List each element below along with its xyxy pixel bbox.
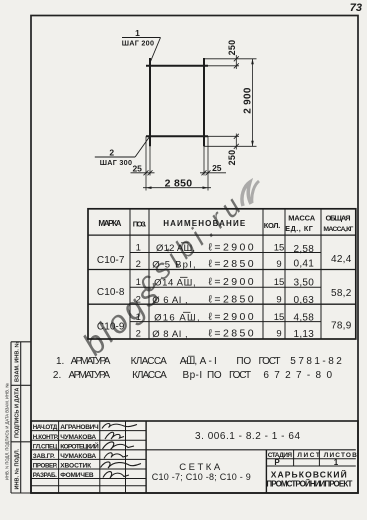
svg-text:ПРОВЕР.: ПРОВЕР. [33,463,58,470]
svg-text:АРМАТУРА: АРМАТУРА [71,356,111,367]
svg-text:250: 250 [227,40,237,56]
columns [58,421,60,493]
dimension 25 right [200,170,226,175]
svg-text:ℓ=2850: ℓ=2850 [209,294,254,306]
svg-text:А-I: А-I [200,356,217,367]
svg-text:МАССА: МАССА [288,214,316,223]
svg-text:Р: Р [274,458,280,467]
svg-text:ЧУМАКОВА: ЧУМАКОВА [60,453,96,460]
svg-text:ПОДПИСЬ И ДАТА: ПОДПИСЬ И ДАТА [14,388,20,438]
svg-text:ПРОМСТРОЙНИИПРОЕКТ: ПРОМСТРОЙНИИПРОЕКТ [266,479,352,488]
dimension 250 top [234,55,239,69]
svg-text:73: 73 [350,2,362,14]
svg-text:НАИМЕНОВАНИЕ: НАИМЕНОВАНИЕ [163,219,246,228]
svg-text:Ø12 AШ,: Ø12 AШ, [156,243,195,254]
svg-text:ЗАВ.ГР.: ЗАВ.ГР. [33,453,55,460]
signatures [101,424,142,479]
svg-text:МАССА,КГ: МАССА,КГ [323,226,353,233]
extension lines [146,59,257,191]
svg-text:ОБЩАЯ: ОБЩАЯ [326,214,351,223]
dimension 250 bottom [234,134,239,150]
mesh top bar (pos.2) [146,65,208,67]
mesh right bar (pos.1) [203,58,205,146]
svg-text:25: 25 [212,163,222,173]
svg-text:3. 006.1 - 8.2 - 1 - 64: 3. 006.1 - 8.2 - 1 - 64 [195,431,300,442]
row lines (partial, merged marks) [130,252,321,254]
note line 2 [53,370,333,381]
svg-text:С10-7: С10-7 [97,255,125,266]
table column lines [129,209,131,339]
svg-text:0,41: 0,41 [293,258,314,269]
svg-text:9: 9 [276,259,281,270]
svg-text:2: 2 [136,329,141,340]
svg-text:2 850: 2 850 [165,177,193,189]
svg-text:1: 1 [136,312,141,323]
svg-text:Н.КОНТР.: Н.КОНТР. [33,434,59,441]
svg-text:ЕД., КГ: ЕД., КГ [285,224,313,233]
svg-text:2,58: 2,58 [293,244,314,255]
svg-text:КЛАССА: КЛАССА [132,370,167,381]
mesh bottom bar (pos.2) [146,135,208,137]
svg-text:1: 1 [135,28,140,38]
svg-text:ℓ=2900: ℓ=2900 [209,276,254,288]
svg-text:2 900: 2 900 [243,87,254,114]
svg-text:С10-9: С10-9 [97,322,125,333]
svg-text:А-Ш ,: А-Ш , [180,356,198,367]
svg-text:КЛАССА: КЛАССА [131,356,168,367]
svg-text:15: 15 [274,277,285,288]
svg-text:ШАГ 300: ШАГ 300 [100,158,133,167]
svg-text:НАЧ.ОТД: НАЧ.ОТД [33,424,58,431]
svg-text:3,50: 3,50 [293,277,314,288]
svg-text:0,63: 0,63 [293,295,314,306]
svg-text:РАЗРАБ.: РАЗРАБ. [33,472,57,479]
svg-text:6727-80: 6727-80 [263,370,332,381]
svg-text:Ø16 AШ,: Ø16 AШ, [154,313,200,324]
svg-text:1: 1 [334,458,339,467]
svg-text:Ø 6 AI ,: Ø 6 AI , [152,295,188,306]
dimension 2900 [252,59,254,147]
svg-text:Вр-I: Вр-I [183,370,203,381]
svg-text:ℓ=2900: ℓ=2900 [209,242,254,254]
svg-text:78,9: 78,9 [331,321,352,332]
svg-text:АРМАТУРА: АРМАТУРА [69,370,111,381]
svg-text:СТАДИЯ: СТАДИЯ [268,452,293,459]
svg-text:ЛИСТ: ЛИСТ [297,452,320,459]
svg-text:ПОЗ.: ПОЗ. [133,220,147,229]
svg-text:ЛИСТОВ: ЛИСТОВ [324,452,357,459]
svg-text:ГЛ.СПЕЦ: ГЛ.СПЕЦ [33,443,58,450]
svg-text:9: 9 [276,329,281,340]
svg-text:250: 250 [227,150,237,166]
svg-text:1,13: 1,13 [293,329,314,340]
right rows [266,458,355,460]
svg-text:С10 -7; С10 -8; С10 - 9: С10 -7; С10 -8; С10 - 9 [152,472,251,482]
mesh left bar (pos.1) [149,58,151,146]
svg-text:42,4: 42,4 [331,254,352,265]
watermark [76,181,259,362]
svg-text:2.: 2. [53,370,61,381]
svg-text:1: 1 [136,243,141,254]
svg-text:1: 1 [136,277,141,288]
svg-text:ХВОСТИК: ХВОСТИК [60,463,92,470]
leader 1 (шаг 200) [122,38,161,62]
svg-text:МАРКА: МАРКА [98,219,121,228]
svg-text:Ø 8 AI ,: Ø 8 AI , [152,329,188,340]
svg-text:9: 9 [276,295,281,306]
svg-text:Ø14 AШ,: Ø14 AШ, [154,278,196,289]
svg-text:15: 15 [274,312,285,323]
svg-text:25: 25 [132,164,142,174]
svg-text:ШАГ 200: ШАГ 200 [122,38,155,47]
note line 1 [56,356,342,367]
svg-text:ФОМИЧЕВ: ФОМИЧЕВ [60,472,94,479]
svg-text:КОЛ.: КОЛ. [264,221,281,230]
svg-text:КОРОТЕЦКИЙ: КОРОТЕЦКИЙ [60,441,99,450]
svg-text:4,58: 4,58 [293,312,314,323]
svg-text:58,2: 58,2 [331,288,352,299]
svg-text:С10-8: С10-8 [97,287,125,298]
svg-text:2: 2 [136,259,141,270]
svg-text:2: 2 [136,295,141,306]
title block outline [31,421,358,493]
dimension 2850 [143,187,211,189]
svg-text:15: 15 [274,243,285,254]
svg-text:АГРАНОВИЧ: АГРАНОВИЧ [60,424,99,431]
svg-text:ИНВ. № ПОДЛ.: ИНВ. № ПОДЛ. [14,448,20,489]
table outer border [88,209,356,339]
svg-text:2: 2 [109,148,114,158]
svg-text:ℓ=2850: ℓ=2850 [209,328,254,340]
svg-text:ГОСТ: ГОСТ [259,356,281,367]
svg-text:ХАРЬКОВСКИЙ: ХАРЬКОВСКИЙ [271,468,347,479]
svg-text:ℓ=2850: ℓ=2850 [209,258,254,270]
header bottom line [88,234,356,236]
dimension 25 left [131,170,155,175]
svg-text:ГОСТ: ГОСТ [229,370,251,381]
svg-text:ℓ=2900: ℓ=2900 [209,311,254,323]
svg-text:ПО: ПО [207,370,222,381]
svg-text:ВЗАМ. ИНВ. №: ВЗАМ. ИНВ. № [14,341,20,382]
left rows [31,430,146,432]
svg-text:ИНВ. N ПОДЛ. ПОДПИСЬ И ДАТА: ИНВ. N ПОДЛ. ПОДПИСЬ И ДАТА ВЗАМ. ИНВ. № [5,383,10,480]
leader 2 (шаг 300) [95,137,150,157]
svg-text:ЧУМАКОВА: ЧУМАКОВА [60,434,96,441]
left attribute strip boxes [11,342,31,493]
svg-text:5781-82: 5781-82 [290,356,342,367]
svg-text:ПО: ПО [236,356,251,367]
svg-text:1.: 1. [56,356,64,367]
